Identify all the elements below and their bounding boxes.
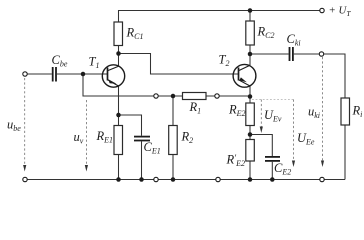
arrow U_Ev	[260, 100, 282, 134]
svg-text:UEe: UEe	[297, 131, 315, 147]
node output terminal	[319, 52, 323, 56]
svg-text:RE2: RE2	[228, 103, 246, 119]
resistor R1	[183, 93, 207, 116]
node dashed link E2	[252, 99, 294, 101]
svg-text:T2: T2	[219, 53, 230, 69]
transistor T2	[219, 53, 256, 88]
svg-text:Cki: Cki	[287, 32, 301, 48]
wire bottom rail	[25, 179, 345, 181]
resistor RC2	[246, 21, 275, 45]
node RC2 top	[248, 8, 253, 13]
arrow u_ki	[308, 57, 324, 167]
wire T1 collector to T2 base coupling	[119, 54, 239, 75]
wire C_E2 bottom	[271, 162, 273, 180]
svg-text:ube: ube	[7, 118, 21, 134]
wire R2 top	[172, 96, 174, 126]
svg-text:uki: uki	[308, 105, 320, 121]
wire C_ki to right rail	[294, 54, 345, 98]
svg-text:+ UT: + UT	[329, 4, 352, 17]
svg-text:UEv: UEv	[264, 108, 282, 124]
transistor T1	[89, 55, 125, 88]
node feedback terminal b	[215, 94, 219, 98]
node ground terminal a	[154, 177, 158, 181]
wire input line	[27, 73, 52, 75]
resistor Ri	[341, 98, 362, 125]
arrow u_v	[74, 100, 89, 172]
wire right rail R_i bottom	[344, 125, 346, 180]
wire base node down and feedback rail	[83, 74, 250, 96]
wire T2 emitter down	[249, 86, 251, 103]
node T2 emitter	[248, 94, 253, 99]
node T1 base	[81, 72, 86, 77]
capacitor CE2	[265, 157, 291, 177]
wire T1 emitter down	[118, 86, 120, 126]
svg-text:CE1: CE1	[144, 140, 161, 156]
open terminals	[23, 8, 324, 181]
node +UT terminal	[320, 8, 324, 12]
wire top rail	[119, 11, 323, 23]
node ground terminal b	[216, 177, 220, 181]
capacitor CE1	[134, 137, 161, 156]
node CE2 ground	[270, 177, 275, 182]
resistor RE2	[228, 103, 254, 126]
svg-text:RC1: RC1	[126, 26, 144, 42]
wire output to C_ki	[250, 53, 289, 55]
svg-text:R′E2: R′E2	[226, 153, 246, 169]
resistor R2	[169, 126, 193, 155]
wire R_C1 to T1 collector	[118, 46, 120, 67]
resistor RE1	[96, 126, 123, 155]
wire R_C2 top	[249, 11, 251, 22]
svg-text:R1: R1	[189, 100, 202, 116]
svg-text:Cbe: Cbe	[52, 53, 68, 69]
svg-text:RE1: RE1	[96, 129, 114, 145]
wire R_E2 to R'_E2	[249, 126, 251, 140]
svg-text:Ri: Ri	[352, 104, 363, 120]
svg-text:uv: uv	[74, 130, 84, 146]
node input ground terminal	[23, 177, 27, 181]
resistor R'E2	[226, 140, 255, 169]
node RE2 junction	[248, 132, 253, 137]
resistor RC1	[114, 22, 143, 46]
svg-text:T1: T1	[89, 55, 100, 71]
wire R2 bottom	[172, 155, 174, 180]
node RE1 ground	[116, 177, 121, 182]
wire C_E1 branch	[119, 115, 142, 136]
wire C_E1 bottom	[141, 141, 143, 179]
wire R'_E2 bottom	[249, 161, 251, 180]
capacitor Cki	[287, 32, 301, 61]
node output ground terminal	[320, 177, 324, 181]
svg-text:RC2: RC2	[257, 25, 275, 41]
node RE2 ground	[248, 177, 253, 182]
node R2 tap	[171, 94, 176, 99]
node T1 collector	[116, 51, 121, 56]
arrow u_be	[7, 78, 26, 172]
svg-text:R2: R2	[181, 130, 194, 146]
capacitor Cbe	[52, 53, 68, 82]
wire R_C2 to T2 collector	[249, 45, 251, 65]
arrow U_Ee	[292, 100, 315, 168]
node input terminal	[23, 72, 27, 76]
svg-text:CE2: CE2	[274, 161, 291, 177]
node feedback terminal a	[154, 94, 158, 98]
node CE1 ground	[139, 177, 144, 182]
node R2 ground	[171, 177, 176, 182]
node CE1 branch	[116, 113, 121, 118]
node RC2 bottom	[248, 52, 253, 57]
wire R_E1 bottom	[118, 155, 120, 180]
wire C_E2 branch	[250, 135, 272, 157]
